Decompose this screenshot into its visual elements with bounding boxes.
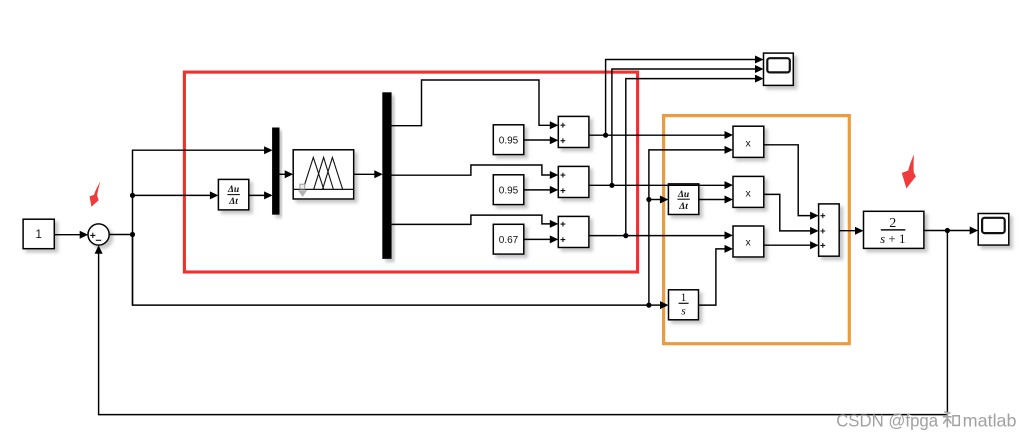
mux block xyxy=(273,128,279,214)
wire 0.95b to Sum2 in2 xyxy=(524,186,559,194)
annotation box red (fuzzy controller region) xyxy=(184,72,637,272)
node J4 du/dt2 branch xyxy=(646,197,651,202)
wire fuzzy block to demux xyxy=(354,170,383,178)
transfer function block 2/(s+1) xyxy=(864,211,924,248)
wire du/dt 2 to product x2 in2 xyxy=(699,196,733,204)
svg-text:0.95: 0.95 xyxy=(499,135,519,146)
svg-text:0.67: 0.67 xyxy=(499,235,519,246)
product block x2 xyxy=(733,176,764,207)
wire branch to du/dt 1 xyxy=(133,191,219,199)
sum junction circle +- xyxy=(88,224,109,245)
node J5 output branch xyxy=(945,228,950,233)
derivative block du/dt 1 xyxy=(218,179,248,210)
wire demux out3 to Sum3 in1 xyxy=(391,215,558,228)
annotation box orange (PID gains region) xyxy=(664,116,850,344)
wire constant to sum circle xyxy=(54,231,88,239)
watermark CJK glyph he xyxy=(943,412,960,428)
derivative block du/dt 2 xyxy=(668,184,698,215)
watermark CSDN @fpga matlab xyxy=(836,411,1018,432)
wire Sum2 out to product x2 in1 xyxy=(589,181,733,189)
annotation arrow red 2 xyxy=(902,155,916,189)
node J1 xyxy=(130,232,135,237)
svg-text:1: 1 xyxy=(35,229,41,241)
wire 0.95a to Sum1 in2 xyxy=(524,136,559,144)
wire mux to fuzzy block xyxy=(279,170,293,178)
add block Sum3 xyxy=(558,216,589,247)
product block x3 xyxy=(733,226,764,257)
node D2 xyxy=(609,183,614,188)
svg-text:1: 1 xyxy=(681,292,687,304)
wire Sum4 to transfer function xyxy=(839,227,863,235)
wire branch to du/dt 2 xyxy=(649,196,669,204)
wire Sum2 riser to Scope1 in2 xyxy=(612,65,764,185)
wire 0.67 to Sum3 in2 xyxy=(524,235,559,243)
annotation arrow red 1 xyxy=(90,181,101,207)
svg-text:0.95: 0.95 xyxy=(499,185,519,196)
wire product x3 to Sum4 in3 xyxy=(764,241,819,249)
svg-text:x: x xyxy=(745,188,751,200)
node J3 integrator branch xyxy=(646,303,651,308)
wire error trunk down to integrator row xyxy=(133,235,669,310)
svg-text:s + 1: s + 1 xyxy=(880,231,905,246)
svg-text:Δu: Δu xyxy=(227,185,239,195)
node J2 xyxy=(130,193,135,198)
wire du/dt 1 to mux in2 xyxy=(249,191,273,199)
node D3 xyxy=(623,233,628,238)
add block Sum2 xyxy=(558,166,589,197)
scope block Scope2 xyxy=(978,214,1009,246)
wire transfer function to Scope2 xyxy=(924,227,978,235)
wire demux out2 to Sum2 in1 xyxy=(391,165,558,179)
wire integrator to product x3 in2 xyxy=(699,245,734,305)
demux block xyxy=(383,93,391,259)
constant block Constant=1 xyxy=(23,219,54,249)
wire error riser to product x1 in2 xyxy=(649,146,733,305)
wire feedback loop to sum circle xyxy=(95,231,948,415)
fuzzy logic controller block xyxy=(293,150,354,199)
wire error trunk vertical with branch to mux in1 xyxy=(133,146,273,305)
wire Sum3 out to product x3 in1 xyxy=(590,231,734,239)
svg-text:x: x xyxy=(745,237,751,249)
add block Sum4 vertical +++ xyxy=(819,204,840,256)
svg-text:Δt: Δt xyxy=(228,197,238,207)
wire demux out1 to Sum1 in1 xyxy=(391,80,558,129)
add block Sum1 xyxy=(558,116,589,147)
svg-text:s: s xyxy=(681,305,686,317)
wire Sum3 riser to Scope1 in3 xyxy=(626,75,764,236)
wire Sum1 riser to Scope1 in1 xyxy=(606,56,764,136)
svg-text:CSDN @fpga: CSDN @fpga xyxy=(836,411,938,431)
constant block 0.67 xyxy=(493,224,524,254)
constant block 0.95 a xyxy=(493,125,524,155)
constant block 0.95 b xyxy=(493,175,524,205)
wire product x2 to Sum4 in2 xyxy=(764,194,819,235)
wire Sum1 out to product x1 in1 xyxy=(589,131,733,139)
scope block Scope1 (3 inputs) xyxy=(764,53,794,85)
svg-text:2: 2 xyxy=(889,216,896,231)
integrator block 1/s xyxy=(669,290,699,320)
node D1 xyxy=(603,133,608,138)
svg-text:matlab: matlab xyxy=(963,411,1017,431)
svg-text:Δu: Δu xyxy=(677,190,689,200)
wire product x1 to Sum4 in1 xyxy=(764,145,819,220)
wire sum circle to node J1 xyxy=(109,234,132,236)
svg-text:Δt: Δt xyxy=(678,202,688,212)
svg-text:x: x xyxy=(745,138,751,150)
product block x1 xyxy=(733,126,764,157)
